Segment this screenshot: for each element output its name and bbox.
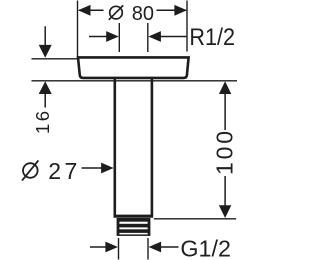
leader line Ø27	[82, 167, 104, 169]
pipe bottom shoulder	[114, 215, 154, 218]
thread stripe 3	[119, 233, 147, 235]
dimension line Ø80 right segment	[157, 9, 187, 11]
thread block G1/2	[117, 218, 151, 236]
extension line pipe end (100 bottom)	[154, 218, 236, 220]
leader line R1/2 left	[89, 36, 108, 38]
pipe left wall	[114, 79, 117, 216]
arrowhead G1/2 left	[105, 242, 118, 253]
ceiling line	[32, 80, 238, 82]
leader line G1/2 left	[90, 246, 107, 248]
leader line R1/2 right	[159, 36, 187, 38]
thread stripe 1	[119, 222, 147, 224]
arrowhead G1/2 right	[149, 242, 162, 253]
extension line right (Ø80)	[186, 1, 188, 52]
svg-text:R1/2: R1/2	[189, 24, 235, 51]
leader line G1/2 right	[160, 246, 179, 248]
dimension line Ø80 left segment	[79, 9, 104, 11]
label Ø27 diameter symbol	[22, 160, 38, 180]
tick left (G1/2)	[118, 238, 120, 260]
arrowhead Ø27	[101, 163, 114, 174]
tick right (G1/2)	[147, 238, 149, 260]
dim 100 down arrowhead	[219, 205, 231, 218]
dim 16 lower tail	[44, 93, 46, 108]
arrowhead R1/2 left	[106, 31, 119, 42]
label Ø80 diameter symbol	[109, 5, 123, 19]
dim 100 upper tail	[224, 93, 226, 131]
arrowhead 16 down	[39, 45, 52, 58]
tick right (R1/2)	[147, 23, 149, 52]
svg-text:G1/2: G1/2	[180, 235, 231, 260]
svg-text:80: 80	[132, 3, 154, 25]
extension line flange top left	[32, 58, 78, 60]
arrowhead 16 up	[39, 81, 52, 94]
pipe right wall	[151, 79, 154, 216]
arrowhead R1/2 right	[148, 31, 161, 42]
dim 16 upper tail	[44, 26, 46, 46]
flange (ceiling escutcheon)	[78, 57, 189, 78]
tick left (R1/2)	[118, 23, 120, 52]
dim 100 lower tail	[224, 176, 226, 206]
thread stripe 2	[119, 227, 147, 229]
dim 100 up arrowhead	[219, 81, 231, 94]
arrowhead Ø80 left	[78, 5, 91, 16]
svg-text:100: 100	[212, 131, 238, 175]
arrowhead Ø80 right	[174, 5, 187, 16]
extension line left (Ø80)	[77, 1, 79, 58]
